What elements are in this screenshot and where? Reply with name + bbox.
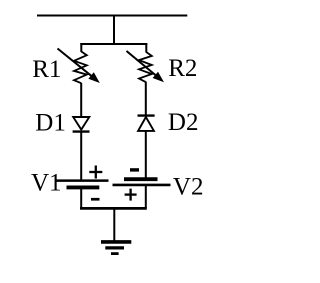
svg-text:R2: R2 <box>168 55 197 82</box>
svg-text:R1: R1 <box>32 56 61 83</box>
svg-text:V1: V1 <box>31 170 62 197</box>
svg-text:D2: D2 <box>168 109 199 136</box>
svg-text:D1: D1 <box>35 110 66 137</box>
svg-text:V2: V2 <box>173 174 204 201</box>
